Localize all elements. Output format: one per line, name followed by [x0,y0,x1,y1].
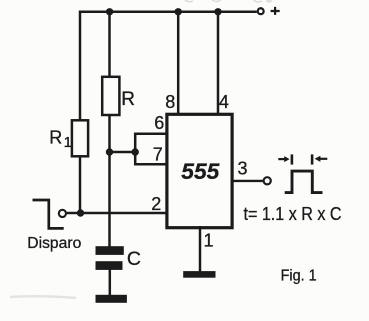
label t= 1.1 x R x C [244,204,342,224]
wire: +V top rail with left corner down to R1 [80,12,257,121]
label Fig. 1 [281,268,317,285]
junction dot rail/pin4 [214,8,221,15]
wire: R1 down to trigger node [79,156,82,213]
pin number 6 [154,113,164,133]
junction dot trigger/R1 [77,209,84,216]
capacitor C bottom plate [96,261,123,270]
wire: capacitor to ground [109,269,112,296]
svg-text:555: 555 [181,159,220,184]
ground (capacitor) [96,295,127,303]
svg-text:Fig. 1: Fig. 1 [281,268,317,285]
capacitor C top plate [96,246,124,255]
svg-text:t= 1.1 x R x C: t= 1.1 x R x C [244,204,342,224]
pin number 4 [219,92,229,112]
scan artifact: faint streak bottom left [10,296,76,298]
resistor R1 [72,120,88,156]
label Disparo [27,235,81,252]
wire: trigger line to pin 2 [67,212,166,214]
svg-text:2: 2 [151,194,161,214]
pin number 3 [237,158,247,178]
label R1 [49,127,72,151]
wire: link from R/C column to pin 6/7 bracket [110,151,136,154]
wire: rail down to resistor R (column through pins 6/7 node to capacitor) [108,12,111,247]
pin number 2 [151,194,161,214]
junction dot rail/pin8 [175,8,182,15]
svg-text:1: 1 [203,230,213,250]
ground (pin 1) [183,271,215,278]
scan artifact: faint cropped handwriting at top edge [184,0,272,3]
svg-text:8: 8 [165,92,175,112]
label C [127,248,141,270]
svg-text:4: 4 [219,92,229,112]
junction dot column/link [106,148,113,155]
pulse width arrow right [312,154,327,164]
wire: pin 1 to ground [199,226,202,272]
trigger pulse symbol (falling edge) [33,200,64,228]
wire: pins 6 and 7 bracket at IC left side [135,134,166,165]
svg-text:3: 3 [237,158,247,178]
svg-text:C: C [127,248,141,270]
svg-text:6: 6 [154,113,164,133]
trigger input terminal [59,210,66,217]
output terminal [264,177,271,184]
svg-text:Disparo: Disparo [27,235,81,252]
resistor R [102,77,119,115]
pin number 1 [203,230,213,250]
label R [121,89,135,110]
pin number 8 [165,92,175,112]
wire: pin 3 output [232,180,263,182]
op-amp U1: 555 timer IC body [167,114,232,227]
svg-text:R: R [121,89,135,110]
wire: pin 8 from rail [177,12,180,116]
svg-text:1: 1 [64,134,72,151]
svg-text:R: R [49,127,62,147]
pin number 7 [153,145,163,165]
+V terminal circle [258,8,264,14]
wire: pin 4 from rail [217,12,220,116]
output pulse waveform [285,171,323,193]
label 555 [181,159,220,184]
junction dot link/bracket [132,148,139,155]
label + (supply polarity) [271,7,280,15]
pulse width arrow left [278,154,292,164]
junction dot rail/R [106,8,113,15]
svg-text:7: 7 [153,145,163,165]
